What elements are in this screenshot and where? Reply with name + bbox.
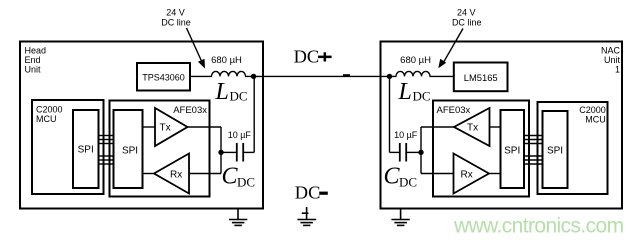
wire: right Tx input from SPI xyxy=(490,126,501,128)
IC U1 TPS43060 xyxy=(137,63,190,91)
svg-text:SPI: SPI xyxy=(122,146,138,157)
svg-text:TPS43060: TPS43060 xyxy=(142,73,185,83)
svg-text:1: 1 xyxy=(615,65,620,75)
node: left DC+ junction xyxy=(251,74,256,79)
IC U2 LM5165 xyxy=(454,63,508,92)
ground (Head End Unit) xyxy=(229,209,247,226)
label L_DC (right) xyxy=(398,79,431,105)
svg-text:Tx: Tx xyxy=(160,123,171,134)
svg-text:DC: DC xyxy=(237,174,255,189)
svg-text:C: C xyxy=(384,164,401,190)
wire: left coupling node vertical xyxy=(220,127,222,174)
arrow: right 24 V DC line pointer xyxy=(438,29,463,69)
wire: right Rx output to SPI xyxy=(489,173,501,175)
wire: left riser capacitor to DC+ junction xyxy=(253,76,255,152)
svg-text:Rx: Rx xyxy=(170,170,182,181)
block: C2000 MCU (left) xyxy=(32,100,104,194)
label C_DC (left) xyxy=(222,164,256,190)
wire: left Rx input from coupling node xyxy=(189,173,221,175)
svg-text:10 µF: 10 µF xyxy=(228,130,252,140)
splice dash on DC+ line xyxy=(343,74,350,76)
SPI bus wires (right, lower group) xyxy=(524,156,543,164)
svg-text:Tx: Tx xyxy=(467,123,478,134)
svg-text:Rx: Rx xyxy=(461,170,473,181)
SPI bus wires (right, upper group) xyxy=(524,136,543,144)
Tx buffer (right) xyxy=(454,108,490,146)
block: AFE03x (right) xyxy=(433,101,529,197)
arrow: left 24 V DC line pointer xyxy=(187,28,206,69)
block: C2000 MCU (right) xyxy=(538,102,608,194)
annotation: 24 V DC line (right) xyxy=(452,8,482,28)
capacitor C_DC 10 uF (right) xyxy=(390,130,422,162)
svg-text:Unit: Unit xyxy=(25,65,42,75)
inductor L_DC 680 uH (left) xyxy=(211,55,245,77)
ground (DC- mid line) xyxy=(297,207,316,225)
svg-text:24 V: 24 V xyxy=(457,8,476,18)
wire: DC+ line between units xyxy=(245,75,397,77)
SPI port of right MCU xyxy=(543,111,568,188)
Rx buffer (right) xyxy=(454,154,490,194)
svg-text:10 µF: 10 µF xyxy=(394,130,418,140)
svg-text:24 V: 24 V xyxy=(166,8,185,18)
SPI bus wires (left, upper group) xyxy=(99,136,114,144)
svg-text:C2000: C2000 xyxy=(36,105,63,115)
node: right AFE coupling junction xyxy=(418,150,423,155)
svg-text:DC: DC xyxy=(295,183,321,203)
label C_DC (right) xyxy=(384,164,418,190)
wire: right Rx input from coupling node xyxy=(421,173,454,175)
svg-text:AFE03x: AFE03x xyxy=(173,105,207,116)
SPI port of left MCU xyxy=(73,110,99,188)
svg-text:AFE03x: AFE03x xyxy=(437,105,471,116)
enclosure: Head End Unit xyxy=(20,42,263,209)
svg-text:End: End xyxy=(25,55,41,65)
svg-text:Head: Head xyxy=(25,46,47,56)
svg-text:MCU: MCU xyxy=(36,114,57,124)
svg-text:DC: DC xyxy=(413,89,431,104)
svg-text:MCU: MCU xyxy=(585,115,606,125)
wire: left Tx output to coupling node xyxy=(188,126,222,128)
wire: right Tx output to coupling node xyxy=(421,126,454,128)
inductor L_DC 680 uH (right) xyxy=(396,55,431,77)
svg-text:C2000: C2000 xyxy=(579,105,606,115)
SPI bus wires (left, lower group) xyxy=(99,156,114,164)
svg-text:DC: DC xyxy=(294,46,320,66)
svg-text:DC: DC xyxy=(399,174,417,189)
svg-text:SPI: SPI xyxy=(78,145,94,156)
svg-text:SPI: SPI xyxy=(504,146,520,157)
capacitor C_DC 10 uF (left) xyxy=(221,130,254,162)
svg-text:DC: DC xyxy=(230,89,248,104)
svg-text:DC line: DC line xyxy=(452,17,482,27)
svg-text:DC line: DC line xyxy=(161,17,191,27)
wire: left Rx output to SPI xyxy=(143,173,155,175)
node: left AFE coupling junction xyxy=(218,150,223,155)
wire: DC+ line TPS43060 to left coil xyxy=(190,75,212,77)
wire: right coupling node vertical xyxy=(420,127,422,174)
svg-text:680 µH: 680 µH xyxy=(400,55,431,66)
svg-text:NAC: NAC xyxy=(601,46,621,56)
svg-text:C: C xyxy=(222,164,239,190)
node: right DC+ junction xyxy=(387,74,392,79)
block: AFE03x (left) xyxy=(110,101,210,197)
SPI port of right AFE03x xyxy=(501,110,525,188)
ground (NAC Unit) xyxy=(391,209,409,226)
enclosure: NAC Unit 1 xyxy=(381,42,623,209)
svg-text:Unit: Unit xyxy=(604,55,621,65)
wire: DC+ line right coil to LM5165 xyxy=(430,75,454,77)
Rx buffer (left) xyxy=(154,154,189,194)
svg-text:www.cntronics.com: www.cntronics.com xyxy=(453,214,624,237)
svg-text:L: L xyxy=(398,79,412,105)
svg-text:SPI: SPI xyxy=(547,146,563,157)
wire: left SPI to Tx input xyxy=(143,126,156,128)
svg-text:LM5165: LM5165 xyxy=(464,72,498,83)
wire: right riser DC+ junction to capacitor xyxy=(389,76,391,152)
label L_DC (left) xyxy=(215,79,248,105)
svg-text:680 µH: 680 µH xyxy=(211,55,242,66)
SPI port of left AFE03x xyxy=(114,110,143,188)
Tx buffer (left) xyxy=(155,108,188,146)
annotation: 24 V DC line (left) xyxy=(161,8,191,28)
svg-text:L: L xyxy=(215,79,229,105)
